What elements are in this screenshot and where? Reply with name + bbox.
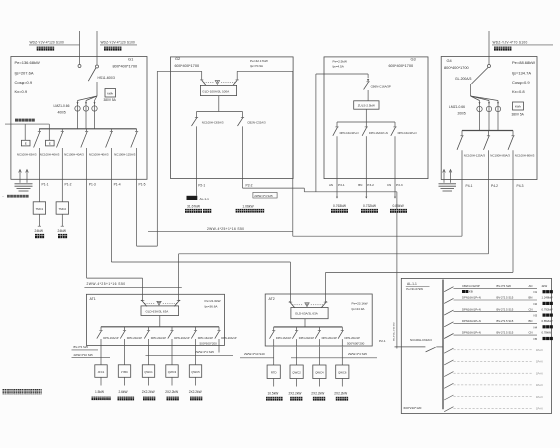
svg-text:NC100H-40A/3: NC100H-40A/3 [64, 152, 84, 156]
svg-text:P2-1: P2-1 [379, 339, 386, 343]
wire from switch QS1 down [96, 82, 98, 96]
fan control box QWC5 [189, 365, 201, 378]
svg-text:BV-2*2.5 S15: BV-2*2.5 S15 [497, 331, 514, 335]
svg-text:DPN-16A/1P: DPN-16A/1P [103, 336, 119, 340]
spare circuit row 2 [444, 360, 542, 365]
circuit N4 texts [462, 319, 553, 329]
lighting circuit N3 breaker and wire [444, 310, 537, 315]
svg-text:DPN-20A/1P: DPN-20A/1P [174, 336, 190, 340]
TMC2 load text [58, 229, 68, 238]
svg-text:Pe=42.17kW: Pe=42.17kW [250, 59, 268, 63]
svg-text:E: E [25, 142, 27, 146]
wire to control box QWC4 [318, 347, 320, 365]
wire below JFC1 [100, 377, 102, 385]
cable label for AT1 feed [84, 282, 181, 287]
wire below AT1 last feeder [218, 345, 220, 352]
svg-text:LMZ1-0.66: LMZ1-0.66 [449, 105, 465, 109]
svg-text:Pe=136.68kW: Pe=136.68kW [15, 60, 40, 65]
svg-text:Pe=31.07kW: Pe=31.07kW [406, 287, 423, 291]
incoming cable 1 name [37, 47, 54, 51]
svg-text:2WW-3*10 S40: 2WW-3*10 S40 [244, 352, 265, 356]
AL-1-1 incoming cable rotated label [393, 322, 395, 341]
ATS AT2 interlock triangle [305, 303, 309, 307]
G1 load parameters text [15, 60, 40, 94]
fan control box QWC4 [313, 365, 326, 379]
breaker QF3 label [371, 84, 391, 88]
main bus of G1 [39, 128, 137, 130]
svg-text:DPN-16A/1P: DPN-16A/1P [276, 336, 292, 340]
svg-text:AL-1-1: AL-1-1 [407, 282, 417, 286]
ATS G2 left blade [200, 80, 206, 85]
breaker AT1-2 label [127, 336, 143, 340]
ATS AT1 linkage dashed [144, 302, 176, 304]
svg-text:P1-2: P1-2 [65, 183, 72, 187]
feeder breaker AT1-2 [120, 327, 126, 346]
circuit N1 extra name text [462, 290, 473, 294]
elevator control box TMC2 [56, 202, 68, 214]
ATS AT1 right blade [174, 300, 180, 306]
wire P1-4 to AT2 normal input [111, 179, 290, 302]
spare circuit row 1 [444, 348, 542, 353]
cable label 2WW-4*25+1*16 S50 for G2 feed [148, 227, 293, 232]
circuit label P2-1 [198, 183, 205, 187]
svg-text:200/5: 200/5 [458, 112, 466, 116]
phase fan-out wires to CTs [78, 96, 98, 129]
svg-text:DPN-20A/1P: DPN-20A/1P [151, 336, 167, 340]
wire P1-5 to G2 normal input [137, 71, 202, 246]
feeder breaker AT2-2 [292, 327, 298, 346]
wire to control box QWC5 [195, 345, 197, 364]
ATS AT2 right blade [321, 301, 327, 307]
cable label 2WW-3*4 S25 under AT1 [146, 350, 234, 355]
wire below QWC2 [296, 379, 298, 387]
incoming cable 2 name [104, 47, 121, 51]
breaker AT2-2 label [299, 336, 315, 340]
svg-text:P1-4: P1-4 [114, 183, 121, 187]
wire P4-2 to AT1 emergency input [179, 180, 489, 301]
svg-text:BN: BN [358, 183, 362, 187]
leakage sensor E1 [21, 124, 30, 146]
breaker QF3-1 label DPN [340, 131, 359, 135]
svg-text:P1-5: P1-5 [139, 183, 146, 187]
svg-text:0.78kW: 0.78kW [542, 331, 552, 335]
svg-text:P1-1: P1-1 [42, 183, 49, 187]
wire P4-3 to AT2 emergency input [326, 180, 513, 303]
G4 designation label [444, 58, 470, 70]
svg-text:GLD-100A/3L 100A: GLD-100A/3L 100A [202, 89, 230, 93]
G3 load names [331, 209, 407, 213]
svg-text:2WW-3*10 S25: 2WW-3*10 S25 [74, 353, 94, 357]
svg-text:QWC3: QWC3 [168, 370, 177, 374]
svg-text:NC100H-125A/3: NC100H-125A/3 [114, 152, 136, 156]
svg-text:DPN-20A/1P: DPN-20A/1P [345, 336, 361, 340]
wire below JYBC [124, 377, 126, 385]
circuit N5 texts [462, 331, 553, 341]
svg-text:QWC5: QWC5 [191, 370, 200, 374]
ATS G2 body GLD-100A/3L [200, 85, 236, 95]
AT2 parameters text [351, 302, 367, 312]
svg-text:800*400*1700: 800*400*1700 [444, 65, 470, 70]
AL-1-1 incoming wire [395, 346, 426, 348]
wire below RTD [273, 379, 275, 387]
fan control box QWC1 [142, 365, 154, 378]
svg-text:AN: AN [529, 284, 533, 288]
svg-text:HS11-400/3: HS11-400/3 [98, 76, 116, 80]
svg-text:G2: G2 [175, 56, 180, 61]
wire to control box JYBC [124, 345, 126, 364]
breaker QF1-4 label [89, 152, 109, 156]
svg-text:QWC1: QWC1 [144, 370, 153, 374]
svg-text:600*400*1700: 600*400*1700 [175, 63, 201, 68]
breaker QF3 blade [364, 82, 370, 101]
svg-text:600*400*1700: 600*400*1700 [389, 63, 415, 68]
wire P2-1 to AL-1-1 feeder symbol [196, 179, 198, 196]
current transformer CT1 circles LMZ1-0.66 [75, 106, 97, 111]
ATS G2 interlock triangle [215, 81, 219, 85]
circuit N1 texts [462, 284, 553, 294]
svg-text:P1-3: P1-3 [89, 183, 96, 187]
svg-text:1P+N: 1P+N [536, 383, 543, 387]
phase and circuit labels P3-1..P3-3 [329, 183, 403, 187]
G3 load texts [333, 204, 405, 208]
svg-text:BV-2*2.5 S15: BV-2*2.5 S15 [497, 307, 514, 311]
svg-text:CN: CN [387, 183, 391, 187]
svg-text:AL-1-1: AL-1-1 [200, 197, 210, 201]
feeder breaker QF4-1 [457, 131, 464, 180]
svg-text:1P+N: 1P+N [536, 348, 543, 352]
svg-text:--: -- [2, 195, 4, 199]
svg-text:2X2.2kW: 2X2.2kW [189, 390, 202, 394]
grounding conductors in G4 [443, 170, 452, 183]
svg-text:P4-1: P4-1 [466, 184, 473, 188]
AL-1-1 main breaker NC100H-C63A/3 [426, 347, 443, 352]
elevator control box TMC1 [33, 202, 45, 214]
wire below TMC1 [38, 214, 41, 226]
main breaker label [410, 338, 432, 342]
contact circle on cable 2 [96, 65, 99, 68]
svg-text:Pe=88.68kW: Pe=88.68kW [512, 60, 535, 65]
feeder breaker QF1-1 [34, 129, 41, 179]
breaker QF1-2 label [40, 152, 60, 156]
lighting circuit N1 breaker and wire [444, 287, 537, 292]
svg-text:Kx=0.9: Kx=0.9 [15, 89, 28, 94]
ATS AT2 left blade [289, 301, 295, 307]
breaker QF3-2 label DPN [369, 131, 388, 135]
circuit labels P1-1..P1-5 [42, 183, 146, 187]
AT1 bus [101, 326, 219, 328]
svg-text:JFC1: JFC1 [98, 370, 105, 374]
cable label 2WW-3*10 S25 [72, 353, 111, 358]
CT4 label [449, 105, 466, 116]
isolating switch QS1 label HS11-400/3 [98, 76, 116, 80]
svg-text:GL-200A/3: GL-200A/3 [455, 77, 472, 81]
AT2 size text 500*600*200 [347, 341, 365, 345]
CT1 label [54, 104, 70, 114]
AT1 size text 500*600*200 [200, 341, 218, 345]
svg-text:NC100H-80A/3: NC100H-80A/3 [490, 154, 510, 158]
spare circuit row 3 [444, 371, 542, 376]
feeder breaker AT1-5 [191, 327, 197, 346]
P2-2 load text [236, 205, 265, 213]
svg-text:Ijs=36.6A: Ijs=36.6A [204, 304, 218, 308]
cable label BV-3*4 S25 [72, 345, 99, 350]
cabinet G3 enclosure box [324, 57, 428, 179]
G2 parameter box [250, 59, 268, 68]
feeder breaker QF4-3 [508, 131, 515, 180]
svg-text:DPN16A/1P+N: DPN16A/1P+N [462, 319, 481, 323]
fan control box JYBC [118, 365, 130, 378]
AT1 load texts [95, 390, 202, 394]
wire to control box QWC6 [341, 347, 343, 365]
svg-text:DPN16A/1P+N: DPN16A/1P+N [462, 296, 481, 300]
svg-text:CB6N-C16A/3P: CB6N-C16A/3P [371, 84, 391, 88]
AL-1-1 size text 600*210*120 [404, 406, 422, 410]
incoming wartime cable wire [488, 31, 490, 65]
AT2 bus [274, 326, 343, 328]
AT1 parameters text [204, 299, 220, 308]
svg-text:DPN16A/1P+N: DPN16A/1P+N [462, 331, 481, 335]
svg-text:0.852kW: 0.852kW [542, 319, 553, 323]
svg-text:2X2.2kW: 2X2.2kW [142, 390, 155, 394]
svg-text:24kW: 24kW [58, 229, 67, 233]
svg-text:CN: CN [529, 331, 533, 335]
lighting circuit N4 breaker and wire [444, 322, 537, 327]
fan control box JFC1 [95, 365, 107, 378]
svg-text:kWh: kWh [107, 92, 113, 96]
svg-text:Ijs=207.6A: Ijs=207.6A [15, 71, 34, 76]
wire below QWC6 [341, 379, 343, 387]
svg-text:1P+N: 1P+N [536, 407, 543, 411]
breaker QF2-2 label [247, 120, 266, 124]
incoming cable wire 1 [79, 31, 81, 64]
breaker QF2-1 label [202, 120, 224, 124]
svg-text:0.85kW: 0.85kW [393, 204, 405, 208]
svg-text:P3-1: P3-1 [338, 183, 345, 187]
cabinet G2 enclosure box [171, 57, 294, 179]
AL-1-1 symbol label [200, 197, 210, 201]
G4 parameters text [512, 60, 535, 94]
grounding conductors in G1 [19, 170, 29, 183]
feeder breaker AT1-3 [144, 327, 150, 346]
ATS AT1 interlock triangle [157, 301, 161, 305]
breaker AT2-1 label [276, 336, 292, 340]
fan circuit arrow P3-2 [365, 197, 367, 199]
svg-text:24kW: 24kW [35, 229, 44, 233]
svg-text:P2-1: P2-1 [198, 183, 205, 187]
wartime cable label line [492, 40, 553, 45]
G3 parameters text [332, 60, 347, 69]
leakage sensor E2 [46, 124, 55, 146]
svg-text:1.248kW: 1.248kW [542, 296, 553, 300]
cable label 2WW-3*10 S40 [240, 352, 274, 358]
svg-text:400/5: 400/5 [58, 110, 66, 114]
svg-text:500*600*200: 500*600*200 [347, 341, 365, 345]
feeder breaker QF4-2 [484, 131, 491, 180]
contact circle on cable 1 [78, 65, 81, 68]
svg-text:QWC2: QWC2 [292, 371, 301, 375]
switch QS4 label [455, 77, 472, 81]
incoming cable 1 label line [29, 40, 80, 45]
breaker QF3-3 label DPN [398, 131, 417, 135]
AL-1-1 vertical bus [442, 280, 444, 410]
AL-1-1 title block [406, 282, 430, 291]
circuit N3 texts [462, 307, 553, 317]
svg-text:AT2: AT2 [269, 297, 275, 301]
isolating switch QS4 blade GL-200A/3 [472, 68, 489, 85]
feeder breaker QF1-4 [106, 129, 113, 179]
svg-text:Ijs=44.9A: Ijs=44.9A [351, 307, 365, 311]
svg-text:CB2N-C32/3P: CB2N-C32/3P [462, 284, 480, 288]
svg-text:BV-4*25+1*16 S50: BV-4*25+1*16 S50 [393, 322, 395, 341]
svg-text:AT1: AT1 [90, 297, 96, 301]
feeder breaker QF1-2 [57, 129, 64, 179]
fan circuit arrow P3-3 [394, 197, 396, 199]
breaker AT2-4 label [345, 336, 361, 340]
breaker QF1-1 label [17, 152, 37, 156]
breaker QF2-2 in G2 [238, 112, 245, 179]
svg-text:10.5kW: 10.5kW [268, 391, 279, 395]
ATS AT2 body GLD-63A/3L [291, 308, 328, 319]
svg-text:2.6kW: 2.6kW [119, 390, 128, 394]
fan circuit arrow P3-1 [336, 197, 338, 199]
ATS G2 mechanical linkage dashed [204, 82, 236, 84]
cable label 2WW-3*4 S25 under AT2 [291, 352, 377, 358]
svg-text:BV-3*4 S20: BV-3*4 S20 [497, 284, 512, 288]
svg-text:Ijs=134.7A: Ijs=134.7A [512, 71, 531, 76]
fan control box QWC2 [290, 365, 303, 379]
svg-text:QWC4: QWC4 [315, 371, 324, 375]
svg-text:N1: N1 [534, 290, 538, 294]
fan control box QWC3 [166, 365, 178, 378]
svg-text:NC100H-40A/3: NC100H-40A/3 [40, 152, 60, 156]
svg-text:DPN-16A/1P+N: DPN-16A/1P+N [369, 131, 388, 135]
breaker QF1-3 label [64, 152, 84, 156]
svg-text:N3: N3 [534, 314, 538, 318]
ATS AT1 body GLD-63A/3L [141, 306, 179, 316]
svg-text:CB2N-C32A/3: CB2N-C32A/3 [247, 120, 266, 124]
wire P2-2 routed to AL-1-1 panel [243, 179, 397, 349]
spare circuit row 6 [444, 407, 542, 412]
svg-text:AN: AN [329, 183, 333, 187]
TMC1 load text [35, 229, 45, 238]
svg-text:Cosφ=0.9: Cosφ=0.9 [512, 80, 530, 85]
AT1 designation label [90, 297, 96, 301]
G4 phase arrows [479, 102, 500, 104]
svg-text:WDZ-YJV-4*120 S100: WDZ-YJV-4*120 S100 [30, 40, 64, 44]
isolating switch QS1 blade [88, 68, 96, 81]
svg-text:N5: N5 [534, 337, 538, 341]
circuit N2 texts [462, 296, 553, 306]
feeder breaker AT1-1 [97, 327, 103, 346]
wire to control box RTD [273, 347, 275, 365]
svg-text:DPN16A/1P+N: DPN16A/1P+N [462, 307, 481, 311]
panel AL-1-1 compact symbol black bar [187, 196, 198, 200]
svg-text:NC100H-40A/3: NC100H-40A/3 [89, 152, 109, 156]
wire below QWC1 [148, 377, 150, 385]
svg-text:TMC2: TMC2 [58, 207, 66, 211]
svg-text:2WW-4*25+1*16 S50: 2WW-4*25+1*16 S50 [207, 227, 244, 231]
svg-text:NC100H-C63A/3: NC100H-C63A/3 [410, 338, 432, 342]
wire below TMC2 [61, 214, 64, 226]
svg-text:1.06kW: 1.06kW [242, 205, 254, 209]
svg-text:2X2.2kW: 2X2.2kW [289, 391, 302, 395]
svg-text:0.763kW: 0.763kW [333, 204, 347, 208]
svg-text:NC100H-80A/3: NC100H-80A/3 [515, 154, 535, 158]
svg-text:KB: KB [469, 290, 473, 294]
svg-text:1.5kW: 1.5kW [95, 390, 104, 394]
contact circle wartime switch [488, 65, 491, 68]
svg-text:DPN-20A/1P: DPN-20A/1P [322, 336, 338, 340]
feeder breaker AT1-6 [215, 327, 221, 346]
G3 designation label [389, 57, 416, 69]
ATS AT1 left blade [141, 300, 147, 306]
svg-text:Ijs=4.5A: Ijs=4.5A [332, 65, 344, 69]
svg-text:1P+N: 1P+N [536, 371, 543, 375]
svg-text:2WW-3*4 S25: 2WW-3*4 S25 [254, 194, 273, 198]
wartime cable name [494, 47, 511, 51]
circuit label P2-2 [246, 183, 253, 187]
svg-text:GLD-63A/3L 63A: GLD-63A/3L 63A [146, 309, 169, 313]
energy meter kWh box G1 [105, 89, 116, 98]
svg-text:380V 5A: 380V 5A [104, 98, 117, 102]
svg-text:800*400*1700: 800*400*1700 [113, 64, 139, 69]
svg-text:Ijs=70.9A: Ijs=70.9A [250, 64, 264, 68]
svg-text:NC100H-63A/3: NC100H-63A/3 [17, 152, 37, 156]
svg-text:ZULS-2.5kW: ZULS-2.5kW [358, 104, 375, 108]
svg-text:G4: G4 [447, 58, 453, 63]
feeder breaker AT2-1 [270, 327, 276, 346]
svg-text:2WW-3*4 S25: 2WW-3*4 S25 [195, 350, 214, 354]
wire below QWC4 [318, 379, 320, 387]
circuit labels P4-1..P4-3 [466, 184, 524, 188]
svg-text:500*600*200: 500*600*200 [200, 341, 218, 345]
soft starter box ZULS-2.5kW [354, 101, 379, 109]
wire to control box QWC1 [148, 345, 150, 364]
ATS AT1 output wire [159, 316, 161, 327]
G3 feed riser wire [316, 74, 368, 192]
svg-text:N4: N4 [534, 325, 538, 329]
svg-text:NC100H-125A/3: NC100H-125A/3 [464, 154, 486, 158]
svg-text:4kW: 4kW [542, 284, 548, 288]
svg-text:31.67kW: 31.67kW [187, 205, 201, 209]
incoming circuit label P2-1 [379, 339, 386, 343]
svg-text:Pe=23.1kW: Pe=23.1kW [352, 302, 368, 306]
svg-text:Pe=2.5kW: Pe=2.5kW [333, 60, 347, 64]
AT2 load names [266, 397, 348, 401]
breaker AT1-3 label [151, 336, 167, 340]
svg-text:N2: N2 [534, 302, 538, 306]
wire P1-2 to TMC2 [61, 179, 63, 202]
wire to control box QWC3 [171, 345, 173, 364]
wire to control box JFC1 [100, 345, 102, 364]
ATS G2 output wire [197, 96, 243, 112]
breaker AT1-1 label [103, 336, 119, 340]
G4 phase fan-out to CTs [471, 96, 499, 131]
meter rating text [104, 98, 117, 102]
svg-text:P4-2: P4-2 [491, 184, 498, 188]
svg-text:DPN-20A/1P: DPN-20A/1P [299, 336, 315, 340]
svg-text:RTD: RTD [271, 371, 277, 375]
panel AT2 enclosure box [265, 294, 372, 346]
svg-text:2WW-4*25+1*16 S50: 2WW-4*25+1*16 S50 [87, 282, 126, 286]
panel AL-1-1 enclosure box [401, 278, 551, 413]
svg-text:2WW-3*4 S25: 2WW-3*4 S25 [348, 352, 367, 356]
svg-text:WDZ-YJV-4*120 S100: WDZ-YJV-4*120 S100 [101, 40, 135, 44]
svg-text:Pe=21.6kW: Pe=21.6kW [205, 299, 221, 303]
fan feeder breaker QF3-1 [333, 122, 339, 197]
feeder breaker AT1-4 [168, 327, 174, 346]
current transformer CT4 circles [477, 106, 501, 111]
